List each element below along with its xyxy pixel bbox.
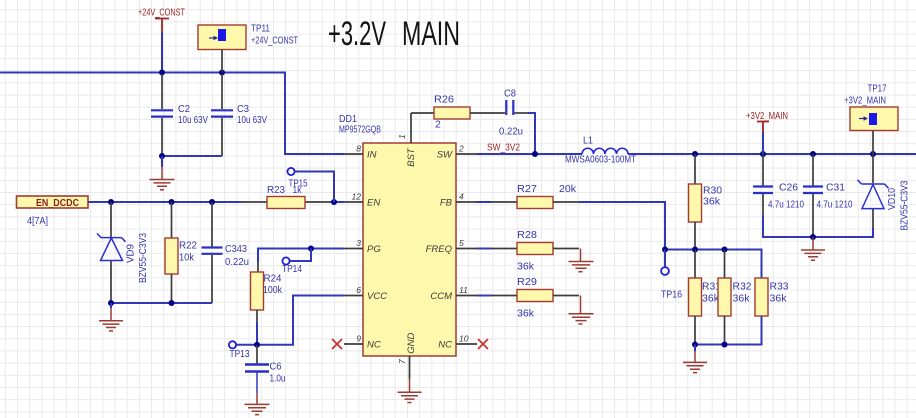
svg-text:36k: 36k: [770, 293, 788, 305]
svg-text:CCM: CCM: [430, 291, 452, 302]
wire TP11 stem: [221, 50, 223, 73]
junction dots on +24V bus: [159, 70, 165, 76]
pin 3 PG: [344, 238, 381, 255]
svg-text:0.22u: 0.22u: [499, 126, 523, 138]
wire PG net: [258, 249, 344, 263]
wire FB net to TP16 node: [553, 201, 579, 203]
svg-text:+24V_CONST: +24V_CONST: [138, 7, 185, 19]
svg-text:VD10: VD10: [886, 188, 898, 210]
resistor R30: [689, 154, 723, 250]
capacitor C6: [245, 345, 286, 393]
svg-text:TP11: TP11: [251, 23, 270, 35]
testpoint TP11: [198, 23, 298, 50]
pin 1 BST: [397, 113, 417, 167]
zener diode VD10: [858, 154, 911, 231]
wire TP15 to EN: [295, 172, 334, 203]
svg-text:BZV55-C3V3: BZV55-C3V3: [899, 180, 911, 230]
svg-text:5: 5: [459, 238, 464, 248]
svg-text:FREQ: FREQ: [426, 244, 453, 255]
zener diode VD9: [97, 202, 149, 303]
svg-text:FB: FB: [440, 198, 453, 209]
svg-text:NC: NC: [367, 340, 381, 351]
junction dots SW net: [532, 151, 538, 157]
pin 2 SW: [437, 144, 477, 161]
svg-text:NC: NC: [438, 340, 452, 351]
testpoint TP13: [229, 341, 250, 360]
capacitor C2: [151, 74, 208, 156]
svg-text:+3.2V: +3.2V: [328, 15, 386, 53]
wire output cap bottom rail: [763, 215, 873, 237]
wire VCC net: [237, 296, 345, 345]
svg-text:SW: SW: [437, 150, 453, 161]
svg-text:BST: BST: [406, 147, 417, 167]
pin 10 NC: [438, 334, 477, 351]
resistor R29: [477, 276, 579, 320]
wire +24V bus to IC IN pin: [0, 73, 344, 155]
svg-text:C6: C6: [270, 361, 282, 373]
svg-text:R33: R33: [770, 281, 789, 293]
svg-text:0.22u: 0.22u: [225, 256, 249, 268]
wire C8 to SW node: [528, 113, 535, 154]
ground CCM: [569, 296, 594, 325]
capacitor C8: [470, 88, 528, 138]
port EN_DCDC: [17, 196, 89, 227]
svg-text:C26: C26: [779, 182, 798, 194]
ground under IC GND pin: [398, 379, 422, 402]
junction dot TP13 rail: [254, 342, 260, 348]
svg-text:+24V_CONST: +24V_CONST: [251, 35, 298, 47]
svg-text:MAIN: MAIN: [402, 15, 460, 53]
svg-text:EN: EN: [367, 198, 380, 209]
junction dots divider bottom rail: [692, 342, 698, 348]
junction dots EN net: [108, 199, 114, 205]
resistor R31: [689, 250, 722, 345]
svg-text:3: 3: [356, 238, 361, 248]
testpoint TP14: [282, 257, 302, 275]
wire TP14 to PG: [290, 249, 311, 262]
svg-text:1.0u: 1.0u: [270, 373, 286, 385]
svg-text:TP13: TP13: [230, 348, 250, 360]
wire C2-C3 bottom rail: [162, 155, 222, 157]
wire FB divider top rail: [665, 250, 762, 279]
svg-text:C31: C31: [826, 182, 845, 194]
wire EN net: [88, 201, 344, 203]
svg-text:6: 6: [356, 285, 361, 295]
svg-text:10u 63V: 10u 63V: [237, 114, 267, 126]
svg-text:7: 7: [397, 359, 407, 364]
svg-text:36k: 36k: [703, 196, 721, 208]
inductor L1: [565, 135, 636, 166]
resistor R27: [477, 183, 577, 209]
svg-text:9: 9: [356, 334, 361, 344]
svg-text:4: 4: [459, 192, 464, 202]
testpoint TP15: [287, 168, 307, 190]
svg-text:IN: IN: [367, 150, 377, 161]
pin 7 GND: [397, 333, 417, 380]
power port +3V2_MAIN: [746, 110, 788, 132]
svg-text:4[7A]: 4[7A]: [27, 215, 48, 227]
svg-text:C8: C8: [504, 88, 516, 100]
svg-text:10u 63V: 10u 63V: [178, 114, 208, 126]
junction dot PG/TP14: [308, 246, 314, 252]
svg-text:TP17: TP17: [868, 83, 887, 95]
resistor R22: [165, 202, 197, 303]
svg-text:4.7u 1210: 4.7u 1210: [817, 199, 853, 211]
capacitor C3: [211, 74, 267, 156]
ground under VD9: [99, 303, 123, 331]
ground under C6: [245, 393, 270, 415]
wire +24V_CONST vertical to bus: [161, 32, 163, 73]
capacitor C31: [803, 154, 853, 237]
op-amp/IC DD1 MP9572GQB: [339, 113, 456, 356]
svg-text:MP9572GQB: MP9572GQB: [339, 124, 381, 136]
svg-text:R27: R27: [517, 183, 537, 195]
ground FREQ: [569, 249, 594, 272]
svg-text:8: 8: [356, 144, 361, 154]
svg-text:VCC: VCC: [367, 291, 387, 302]
junction C2 bottom: [159, 153, 165, 159]
pin 4 FB: [440, 192, 477, 209]
testpoint TP17: [844, 83, 898, 131]
resistor R28: [477, 229, 579, 273]
no-connect X pin 10: [478, 339, 488, 349]
svg-text:+3V2_MAIN: +3V2_MAIN: [844, 95, 886, 107]
svg-text:PG: PG: [367, 244, 381, 255]
svg-text:36k: 36k: [517, 261, 535, 273]
svg-text:EN_DCDC: EN_DCDC: [36, 198, 79, 209]
svg-text:R32: R32: [733, 281, 752, 293]
svg-text:1k: 1k: [293, 184, 303, 196]
svg-text:TP16: TP16: [661, 289, 682, 301]
capacitor C343: [202, 202, 250, 303]
svg-text:R22: R22: [179, 240, 197, 252]
svg-text:R23: R23: [267, 184, 285, 196]
svg-text:BZV55-C3V3: BZV55-C3V3: [137, 233, 149, 283]
wire divider bottom rail: [695, 316, 762, 345]
pin 11 CCM: [430, 285, 477, 302]
resistor R33: [755, 278, 789, 345]
junction dots divider top rail: [662, 247, 668, 253]
svg-text:C343: C343: [225, 243, 247, 255]
svg-text:2: 2: [435, 119, 441, 131]
svg-text:R24: R24: [264, 273, 282, 285]
ground divider: [683, 345, 707, 373]
pin 8 IN: [344, 144, 377, 161]
svg-text:20k: 20k: [559, 183, 577, 195]
resistor R24: [251, 262, 283, 322]
capacitor C26: [753, 154, 804, 215]
svg-text:2: 2: [458, 144, 464, 154]
wire EN bottom rail: [111, 302, 212, 304]
ground output caps: [801, 237, 825, 260]
svg-text:VD9: VD9: [125, 244, 137, 263]
resistor R26: [411, 94, 470, 131]
svg-text:1: 1: [397, 134, 407, 139]
svg-text:100k: 100k: [263, 284, 283, 296]
testpoint TP16: [661, 250, 682, 301]
pin 9 NC: [344, 334, 381, 351]
svg-text:SW_3V2: SW_3V2: [487, 142, 520, 154]
svg-text:36k: 36k: [702, 293, 720, 305]
junction dots EN bottom rail: [108, 300, 114, 306]
pin 5 FREQ: [426, 238, 477, 255]
svg-text:10k: 10k: [179, 252, 195, 264]
resistor R32: [718, 250, 752, 345]
svg-text:11: 11: [459, 285, 468, 295]
resistor R23: [267, 184, 305, 209]
wire TP17 stem: [872, 131, 874, 155]
pin 12 EN: [344, 192, 380, 209]
svg-text:4.7u 1210: 4.7u 1210: [768, 199, 804, 211]
wire R24 to TP13 rail: [256, 322, 258, 345]
pin 6 VCC: [344, 285, 387, 302]
svg-text:R26: R26: [434, 94, 454, 106]
svg-text:36k: 36k: [517, 308, 535, 320]
wire +3V2 stub: [762, 132, 764, 154]
svg-text:+3V2_MAIN: +3V2_MAIN: [746, 110, 788, 122]
no-connect X pin 9: [332, 339, 342, 349]
svg-text:TP14: TP14: [282, 263, 302, 275]
svg-text:10: 10: [459, 334, 469, 344]
svg-text:R28: R28: [517, 229, 537, 241]
junction dot cap rail: [810, 234, 816, 240]
svg-text:12: 12: [352, 192, 362, 202]
svg-text:GND: GND: [406, 333, 417, 354]
svg-text:36k: 36k: [733, 293, 751, 305]
svg-text:R29: R29: [517, 276, 537, 288]
svg-text:MWSA0603-100MT: MWSA0603-100MT: [565, 154, 636, 166]
ground under C2: [150, 156, 175, 190]
power port +24V_CONST: [138, 7, 185, 33]
wire SW output net: [477, 153, 916, 155]
svg-text:L1: L1: [583, 135, 593, 147]
